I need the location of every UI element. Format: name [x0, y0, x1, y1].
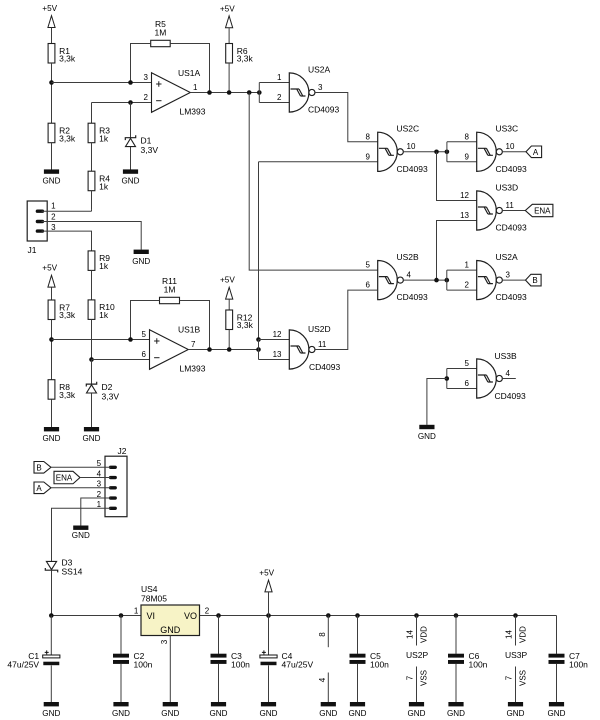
svg-text:GND: GND — [447, 709, 465, 718]
svg-text:+5V: +5V — [42, 264, 57, 273]
svg-text:US3P: US3P — [505, 650, 528, 660]
wire node to US1A pin 3 — [52, 82, 152, 84]
wire US2D input tie — [258, 340, 260, 360]
svg-text:47u/25V: 47u/25V — [7, 660, 39, 670]
junction feedback — [207, 347, 212, 352]
svg-text:5: 5 — [366, 261, 371, 270]
junction rail/C1 — [49, 613, 54, 618]
capacitor C3 — [211, 651, 251, 670]
svg-text:100n: 100n — [569, 660, 588, 670]
+5V supply (R7) — [42, 264, 57, 287]
wire rail corner to C7 — [556, 616, 558, 654]
net flag ENA — [54, 471, 80, 483]
wire US1A output — [190, 92, 259, 94]
wire US4 GND pin to GND — [169, 636, 171, 703]
svg-text:3: 3 — [97, 480, 102, 489]
svg-text:GND: GND — [83, 434, 101, 443]
svg-text:6: 6 — [366, 281, 371, 290]
wire US2C output — [403, 151, 447, 153]
ground (R8) — [43, 427, 61, 443]
svg-text:3,3k: 3,3k — [237, 54, 254, 64]
svg-text:GND: GND — [122, 177, 140, 186]
wire US3B input tie — [446, 369, 448, 389]
svg-text:10: 10 — [506, 142, 515, 151]
svg-text:GND: GND — [349, 709, 367, 718]
junction feedback/pin5 — [128, 337, 133, 342]
NAND gate US2C (CD4093) — [378, 132, 404, 171]
net flag ENA — [525, 204, 553, 216]
NAND gate US3B (CD4093, unused) — [477, 359, 503, 398]
svg-text:US3B: US3B — [495, 351, 518, 361]
wire +5V to R7 — [51, 287, 53, 300]
wire C3 to GND — [218, 664, 220, 702]
resistor R6 — [226, 44, 254, 64]
wire rail to C3 — [218, 616, 220, 654]
wire US1 pin 4 stub — [327, 673, 329, 703]
capacitor C1 — [7, 650, 59, 669]
svg-text:1: 1 — [134, 606, 139, 615]
svg-text:4: 4 — [318, 677, 327, 682]
wire US2B out up to US3D pin 13 — [437, 221, 477, 281]
svg-text:CD4093: CD4093 — [309, 362, 340, 372]
resistor R1 — [48, 44, 76, 64]
svg-text:8: 8 — [366, 132, 371, 141]
wire D3 to +5V rail — [51, 570, 53, 615]
capacitor C7 — [549, 651, 589, 670]
svg-text:US1A: US1A — [178, 68, 201, 78]
svg-text:11: 11 — [506, 201, 515, 210]
junction rail/US3P — [513, 613, 518, 618]
wire +5V to R1 — [51, 28, 53, 44]
wire C4 to GND — [268, 665, 270, 702]
wire R7 to node/R8 — [51, 320, 53, 380]
svg-text:5: 5 — [97, 459, 102, 468]
ground (D2) — [83, 427, 101, 443]
wire J2 pin 2 to GND — [81, 498, 111, 526]
wire D1 to GND — [130, 147, 132, 170]
svg-text:1: 1 — [193, 83, 198, 92]
svg-text:1: 1 — [277, 73, 282, 82]
wire US3D out to flag ENA — [502, 210, 525, 212]
svg-text:6: 6 — [465, 379, 470, 388]
svg-text:CD4093: CD4093 — [397, 292, 428, 302]
ground (US2P) — [408, 702, 426, 718]
svg-text:CD4093: CD4093 — [496, 223, 527, 233]
wire US3C input tie — [446, 142, 448, 162]
net flag B — [526, 274, 542, 286]
ground (US3P) — [507, 702, 525, 718]
svg-text:CD4093: CD4093 — [308, 105, 339, 115]
svg-text:78M05: 78M05 — [141, 594, 167, 604]
wire R11 left to pin5 node — [131, 301, 160, 340]
junction R12 — [227, 347, 232, 352]
svg-text:GND: GND — [507, 709, 525, 718]
ground (R2) — [43, 169, 61, 185]
svg-text:100n: 100n — [231, 660, 250, 670]
svg-text:3: 3 — [51, 223, 56, 232]
svg-text:GND: GND — [548, 709, 566, 718]
svg-text:14: 14 — [504, 630, 513, 639]
svg-text:+5V: +5V — [220, 275, 235, 284]
svg-text:VO: VO — [184, 611, 197, 621]
svg-text:GND: GND — [72, 531, 90, 540]
svg-text:2: 2 — [51, 212, 56, 221]
svg-text:GND: GND — [43, 177, 61, 186]
net flag A — [34, 482, 51, 494]
svg-text:US2B: US2B — [397, 252, 420, 262]
svg-text:13: 13 — [273, 350, 282, 359]
svg-text:2: 2 — [465, 281, 470, 290]
wire US2A pins 1,2 — [259, 83, 289, 103]
NAND gate US3C (CD4093) — [477, 132, 503, 171]
capacitor C4 — [260, 650, 314, 669]
svg-text:CD4093: CD4093 — [496, 292, 527, 302]
junction feedback — [207, 90, 212, 95]
svg-text:CD4093: CD4093 — [495, 391, 526, 401]
svg-text:12: 12 — [273, 330, 282, 339]
wire R5 right to output node — [170, 44, 209, 93]
junction rail/C2 — [119, 613, 124, 618]
svg-text:+5V: +5V — [220, 4, 235, 13]
svg-text:LM393: LM393 — [180, 363, 206, 373]
wire node to D2 — [91, 360, 93, 385]
wire rail D3 to US4 VI — [51, 615, 141, 617]
wire US2 VSS stub — [416, 667, 418, 703]
wire R1 to node/R2 — [51, 63, 53, 123]
junction to US3D pin13 — [434, 278, 439, 283]
ground (US3B) — [418, 425, 436, 441]
wire US3C out to flag A — [502, 151, 526, 153]
junction US3B inputs/GND — [445, 376, 450, 381]
svg-text:8: 8 — [318, 632, 327, 637]
wire C2 to GND — [120, 664, 122, 702]
junction US2A-B inputs — [445, 278, 450, 283]
connector J1 — [27, 201, 47, 255]
svg-text:GND: GND — [112, 709, 130, 718]
NAND gate US2B (CD4093) — [378, 261, 404, 300]
net flag B — [34, 462, 51, 474]
NAND gate US2A (CD4093, output B) — [477, 261, 503, 300]
svg-text:US2A: US2A — [308, 64, 331, 74]
capacitor C2 — [113, 651, 153, 670]
svg-text:3: 3 — [144, 73, 149, 82]
wire pin9 down to US1B out node — [258, 162, 260, 340]
ground (D1) — [122, 169, 140, 185]
junction to US3D pin12 — [434, 150, 439, 155]
svg-text:100n: 100n — [370, 660, 389, 670]
svg-text:2: 2 — [277, 93, 282, 102]
svg-text:J1: J1 — [28, 245, 37, 255]
svg-text:US4: US4 — [141, 584, 158, 594]
svg-text:11: 11 — [318, 340, 327, 349]
wire flag A to J2 pin 3 — [51, 487, 111, 489]
svg-text:3,3k: 3,3k — [59, 54, 76, 64]
svg-text:8: 8 — [465, 132, 470, 141]
junction rail/C4 — [266, 613, 271, 618]
wire R8 to GND — [51, 399, 53, 427]
svg-text:VSS: VSS — [420, 670, 429, 686]
svg-text:6: 6 — [142, 350, 147, 359]
wire US2A-B out to flag B — [502, 279, 525, 281]
wire US2 VDD stub — [416, 616, 418, 646]
svg-text:GND: GND — [210, 709, 228, 718]
svg-text:13: 13 — [460, 211, 469, 220]
svg-text:9: 9 — [366, 152, 371, 161]
wire US2A-B pins 1,2 — [447, 270, 477, 290]
svg-text:10: 10 — [407, 142, 416, 151]
ground (C2) — [112, 702, 130, 718]
svg-text:3,3V: 3,3V — [141, 145, 159, 155]
op-amp US1A (comparator) — [152, 73, 191, 113]
wire US3B pins 5,6 — [447, 369, 477, 389]
+5V supply (R12) — [220, 275, 235, 299]
capacitor C5 — [350, 651, 390, 670]
svg-text:GND: GND — [408, 709, 426, 718]
svg-text:+5V: +5V — [42, 4, 57, 13]
wire C1 to GND — [50, 665, 52, 702]
wire D2 to GND — [91, 393, 93, 427]
wire US3 VSS stub — [515, 667, 517, 703]
junction feedback/pin3 — [128, 80, 133, 85]
svg-text:LM393: LM393 — [180, 107, 206, 117]
junction R7/R8/pin5 — [49, 337, 54, 342]
svg-text:5: 5 — [465, 359, 470, 368]
ground (C1) — [42, 702, 60, 718]
junction rail/C3 — [216, 613, 221, 618]
wire to US3D pin 12 — [437, 152, 477, 201]
svg-text:B: B — [532, 276, 537, 285]
capacitor C6 — [448, 651, 488, 670]
junction to US2B — [247, 90, 252, 95]
svg-text:J2: J2 — [118, 446, 127, 456]
wire US2D pins 12,13 — [259, 340, 290, 360]
wire J1 pin 1 — [42, 210, 92, 211]
svg-text:ENA: ENA — [534, 207, 551, 216]
wire US2A input tie — [258, 83, 260, 103]
junction US3C inputs — [445, 150, 450, 155]
wire pin 5 line — [52, 339, 150, 341]
junction rail/C6 — [454, 613, 459, 618]
resistor R4 — [88, 171, 110, 191]
svg-text:100n: 100n — [469, 660, 488, 670]
wire US1 pin 8 stub — [327, 616, 329, 648]
junction D1/pin2 — [128, 100, 133, 105]
net flag A — [526, 146, 542, 158]
svg-text:4: 4 — [97, 469, 102, 478]
resistor R3 — [88, 123, 110, 143]
junction rail/C5 — [355, 613, 360, 618]
svg-text:3: 3 — [506, 270, 511, 279]
svg-text:VSS: VSS — [519, 670, 528, 686]
svg-text:CD4093: CD4093 — [397, 164, 428, 174]
wire rail to C5 — [357, 616, 359, 654]
svg-text:47u/25V: 47u/25V — [282, 660, 314, 670]
wire J1 pin 3 to R9 — [42, 231, 92, 251]
resistor R2 — [48, 123, 76, 143]
svg-text:1: 1 — [465, 261, 470, 270]
wire pin 6 line — [92, 359, 150, 361]
wire R3 to R4 — [91, 143, 93, 172]
wire US2D out to US2B pin 6 — [315, 290, 378, 349]
svg-text:GND: GND — [319, 709, 337, 718]
svg-text:GND: GND — [418, 432, 436, 441]
svg-text:1M: 1M — [155, 28, 167, 38]
wire node to US2B pin 5 — [249, 93, 378, 271]
svg-text:3: 3 — [160, 639, 169, 644]
junction R6 — [227, 90, 232, 95]
NAND gate US2D (CD4093) — [289, 330, 315, 369]
svg-text:1M: 1M — [164, 285, 176, 295]
wire rail to C2 — [120, 616, 122, 654]
svg-text:GND: GND — [132, 257, 150, 266]
+5V supply (R1) — [42, 4, 57, 27]
svg-text:7: 7 — [405, 675, 414, 680]
svg-text:3,3V: 3,3V — [102, 392, 120, 402]
wire J2 pin 1 to D3 — [52, 508, 111, 561]
wire C6 to GND — [455, 664, 457, 702]
wire rail to C1 — [50, 616, 52, 655]
svg-text:3: 3 — [318, 83, 323, 92]
wire R12 to output line — [228, 330, 230, 350]
wire +5V to R12 — [228, 299, 230, 310]
svg-text:+5V: +5V — [259, 569, 274, 578]
svg-text:VDD: VDD — [420, 626, 429, 643]
junction rail/US1P — [326, 613, 331, 618]
wire node to D1 — [130, 103, 132, 138]
svg-text:9: 9 — [465, 152, 470, 161]
svg-text:GND: GND — [161, 709, 179, 718]
+5V supply (R6) — [220, 4, 235, 27]
svg-text:A: A — [533, 148, 539, 157]
ground (C4) — [260, 702, 278, 718]
+5V supply (rail) — [259, 569, 274, 592]
svg-text:2: 2 — [205, 606, 210, 615]
wire US2A out to US2C pin 8 — [315, 93, 378, 142]
ground (C5) — [349, 702, 367, 718]
wire R2 to GND — [51, 143, 53, 170]
svg-text:1: 1 — [97, 500, 102, 509]
svg-text:7: 7 — [191, 340, 196, 349]
resistor R8 — [48, 380, 76, 400]
wire pin2 line to R3 — [91, 103, 93, 124]
svg-text:1k: 1k — [99, 310, 109, 320]
svg-text:CD4093: CD4093 — [496, 164, 527, 174]
svg-text:7: 7 — [504, 675, 513, 680]
svg-text:US3D: US3D — [496, 182, 519, 192]
svg-text:A: A — [36, 484, 42, 493]
svg-text:US2C: US2C — [397, 124, 420, 134]
wire US2B output — [403, 279, 447, 281]
wire C5 to GND — [357, 664, 359, 702]
wire +5V to rail — [268, 592, 270, 616]
resistor R11 — [160, 276, 180, 303]
svg-text:1: 1 — [51, 202, 56, 211]
junction US2D — [256, 347, 261, 352]
wire flag B to J2 pin 5 — [51, 466, 111, 468]
junction rail/US2P — [414, 613, 419, 618]
ground (J2 pin2) — [72, 526, 90, 541]
svg-text:1k: 1k — [99, 133, 109, 143]
op-amp US1B (comparator) — [150, 330, 189, 370]
schottky diode D3 — [45, 557, 82, 576]
svg-text:1k: 1k — [99, 261, 109, 271]
NAND gate US3D (CD4093) — [477, 191, 503, 230]
wire pin 2 line — [92, 102, 152, 104]
svg-text:US2D: US2D — [308, 324, 331, 334]
resistor R10 — [88, 300, 115, 320]
svg-text:SS14: SS14 — [62, 567, 83, 577]
svg-text:VDD: VDD — [519, 626, 528, 643]
junction US2A inputs — [257, 90, 262, 95]
wire R11 right to output node — [180, 301, 210, 350]
wire US3C pins 8,9 — [447, 142, 477, 162]
ground (US4) — [161, 702, 179, 718]
ground (C3) — [210, 702, 228, 718]
ground (US1P) — [319, 702, 337, 718]
wire R9 to R10 — [91, 270, 93, 300]
svg-text:2: 2 — [97, 490, 102, 499]
svg-text:14: 14 — [405, 630, 414, 639]
svg-text:2: 2 — [144, 93, 149, 102]
svg-text:US3C: US3C — [496, 124, 519, 134]
connector J2 — [105, 446, 127, 517]
resistor R5 — [151, 19, 171, 47]
svg-text:US2A: US2A — [496, 252, 519, 262]
wire R6 to output line — [228, 63, 230, 93]
voltage regulator US4 78M05 — [141, 584, 200, 636]
resistor R12 — [226, 310, 254, 330]
zener diode D1 — [125, 135, 158, 155]
wire flag ENA to J2 pin 4 — [80, 477, 111, 479]
svg-text:100n: 100n — [134, 660, 153, 670]
junction US2D pin12 — [256, 337, 261, 342]
svg-text:GND: GND — [42, 709, 60, 718]
svg-text:5: 5 — [142, 330, 147, 339]
svg-text:4: 4 — [506, 369, 511, 378]
wire rail US4 VO to C7 — [200, 615, 557, 617]
wire +5V to R6 — [228, 28, 230, 44]
NAND gate US2A (CD4093) — [289, 73, 315, 112]
svg-text:ENA: ENA — [56, 474, 73, 483]
wire US1B output — [188, 349, 258, 351]
wire US2A-B input tie — [446, 270, 448, 290]
wire US3 VDD stub — [515, 616, 517, 646]
wire R10 down to pin6 node — [91, 319, 93, 359]
svg-text:GND: GND — [160, 625, 181, 635]
svg-text:3,3k: 3,3k — [237, 320, 254, 330]
ground (C7) — [548, 702, 566, 718]
svg-text:1k: 1k — [99, 181, 109, 191]
wire R4 to J1 pin1 — [91, 191, 93, 210]
wire US3B inputs to GND — [427, 379, 447, 425]
wire rail to C6 — [455, 616, 457, 654]
svg-text:VI: VI — [147, 611, 156, 621]
svg-text:GND: GND — [260, 709, 278, 718]
zener diode D2 — [86, 382, 119, 402]
junction R10/D2/pin6 — [89, 357, 94, 362]
svg-text:3,3k: 3,3k — [59, 133, 76, 143]
wire US3B output stub — [502, 378, 516, 380]
svg-text:US2P: US2P — [406, 650, 429, 660]
wire rail to C4 — [268, 616, 270, 655]
ground (J1 pin2) — [132, 250, 150, 266]
junction R1/R2/pin3 — [49, 80, 54, 85]
svg-text:GND: GND — [43, 434, 61, 443]
resistor R7 — [48, 300, 76, 320]
svg-text:B: B — [36, 463, 41, 472]
svg-text:12: 12 — [460, 191, 469, 200]
wire R5 left to pin3 node — [131, 44, 151, 83]
